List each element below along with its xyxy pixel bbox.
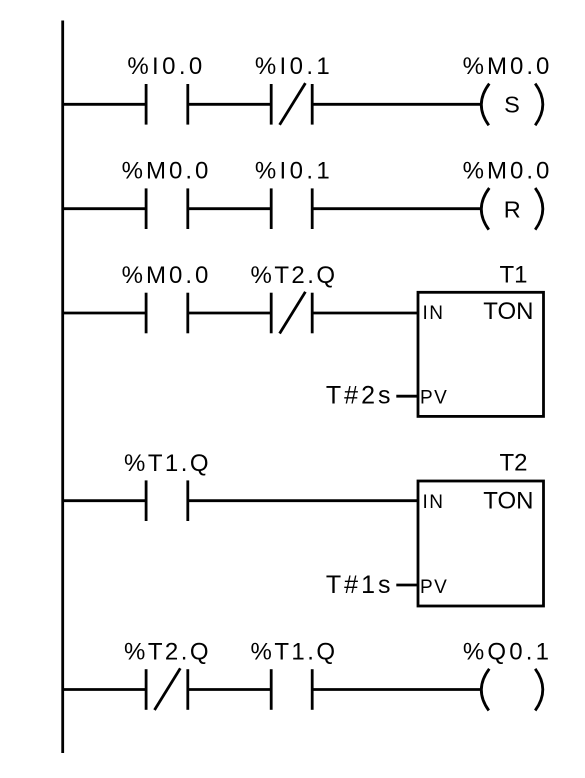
coil S %M0.0 xyxy=(481,84,489,126)
svg-text:%T2.Q: %T2.Q xyxy=(124,639,211,666)
svg-text:%M0.0: %M0.0 xyxy=(463,158,553,185)
wire to timer T2 IN xyxy=(188,499,418,502)
wire to timer T1 IN xyxy=(312,312,418,315)
wire T#1s to PV of T2 xyxy=(396,584,418,587)
svg-text:T#2s: T#2s xyxy=(326,382,394,410)
coil %Q0.1 xyxy=(481,669,489,711)
svg-text:%I0.1: %I0.1 xyxy=(255,53,333,80)
wire between contacts xyxy=(188,207,271,210)
svg-text:TON: TON xyxy=(483,487,533,514)
rung 3 wire: rail to contact %M0.0 xyxy=(63,312,146,315)
svg-text:PV: PV xyxy=(420,387,448,408)
wire between contacts xyxy=(188,312,271,315)
contact %T2.Q (NC) xyxy=(145,669,148,710)
contact %T1.Q (NO) xyxy=(145,480,148,521)
rung 5 wire: rail to contact %T2.Q xyxy=(63,688,146,691)
timer block T1 TON xyxy=(418,292,544,416)
svg-text:%T1.Q: %T1.Q xyxy=(251,639,338,666)
wire %I0.1 to coil S xyxy=(312,103,480,106)
wire T#2s to PV of T1 xyxy=(396,395,418,398)
contact %M0.0 (NO) xyxy=(145,188,148,229)
left power rail xyxy=(61,21,64,754)
svg-text:S: S xyxy=(504,91,520,117)
svg-text:IN: IN xyxy=(423,303,445,324)
contact %I0.0 (NO) xyxy=(145,84,148,125)
svg-text:%M0.0: %M0.0 xyxy=(463,53,553,80)
wire between contacts xyxy=(188,688,271,691)
rung 2 wire: rail to contact %M0.0 xyxy=(63,207,146,210)
contact %M0.0 (NO) xyxy=(145,293,148,334)
timer block T2 TON xyxy=(418,481,544,606)
svg-text:R: R xyxy=(504,196,521,222)
svg-text:%T1.Q: %T1.Q xyxy=(124,450,211,477)
contact %I0.1 (NO) xyxy=(270,188,273,229)
svg-text:T2: T2 xyxy=(499,450,527,477)
wire to output coil xyxy=(312,688,480,691)
svg-text:T1: T1 xyxy=(499,262,527,289)
svg-text:%I0.0: %I0.0 xyxy=(127,53,205,80)
wire between %I0.0 and %I0.1 xyxy=(188,103,271,106)
contact %I0.1 (NC) xyxy=(270,84,273,125)
svg-text:%M0.0: %M0.0 xyxy=(122,158,212,185)
svg-text:%T2.Q: %T2.Q xyxy=(251,262,338,289)
rung 1 wire: rail to contact %I0.0 xyxy=(63,103,146,106)
contact %T2.Q (NC) xyxy=(270,293,273,334)
wire to coil R xyxy=(312,207,480,210)
coil R %M0.0 xyxy=(481,188,489,230)
svg-text:%M0.0: %M0.0 xyxy=(122,262,212,289)
svg-text:T#1s: T#1s xyxy=(326,571,394,599)
svg-text:%Q0.1: %Q0.1 xyxy=(463,639,552,666)
svg-text:IN: IN xyxy=(423,492,445,513)
svg-text:PV: PV xyxy=(420,577,448,598)
rung 4 wire: rail to contact %T1.Q xyxy=(63,499,146,502)
svg-text:%I0.1: %I0.1 xyxy=(255,158,333,185)
contact %T1.Q (NO) xyxy=(270,669,273,710)
svg-text:TON: TON xyxy=(483,298,533,325)
